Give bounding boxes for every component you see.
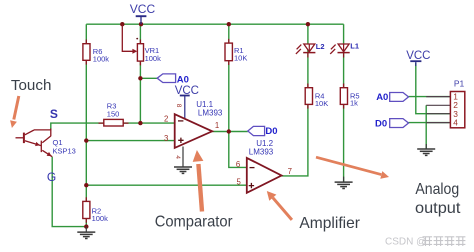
- connector P1: [426, 79, 465, 128]
- wire A0 to P1 pin 1: [409, 96, 451, 98]
- svg-text:P1: P1: [454, 79, 465, 89]
- svg-text:150: 150: [107, 109, 120, 118]
- svg-text:Comparator: Comparator: [155, 213, 233, 230]
- svg-text:S: S: [50, 107, 58, 121]
- LED L1: [330, 42, 359, 54]
- power VCC U1.1: [175, 85, 199, 119]
- junction R1 on VCC rail: [227, 22, 231, 26]
- wire divider to pin 5: [86, 184, 247, 186]
- wire VCC top rail: [86, 23, 343, 25]
- watermark CSDN: [385, 237, 465, 248]
- svg-text:L1: L1: [350, 42, 359, 51]
- LED L2: [296, 42, 325, 54]
- junction VR1 bottom with R3 output: [138, 121, 142, 125]
- wire R6 divider vertical: [85, 24, 87, 226]
- svg-text:LM393: LM393: [198, 108, 223, 117]
- svg-text:8: 8: [175, 104, 182, 108]
- resistor R6: [83, 40, 109, 65]
- annotation arrow amplifier: [267, 191, 292, 220]
- svg-text:G: G: [47, 170, 56, 184]
- power VCC P1: [406, 50, 430, 66]
- svg-text:VCC: VCC: [175, 85, 199, 97]
- ground U1.1: [174, 147, 192, 174]
- svg-text:LM393: LM393: [249, 147, 274, 156]
- ground P1: [417, 144, 435, 155]
- junction node A0 on VR1 branch: [138, 76, 142, 80]
- svg-text:10K: 10K: [234, 53, 247, 62]
- svg-text:VCC: VCC: [406, 50, 430, 62]
- svg-text:Analog: Analog: [415, 181, 459, 198]
- svg-text:2: 2: [164, 115, 168, 124]
- wire VCC to P1 pin 3: [416, 63, 451, 114]
- wire G emitter to ground: [52, 157, 86, 227]
- svg-text:1k: 1k: [350, 99, 358, 108]
- svg-text:Amplifier: Amplifier: [299, 215, 360, 232]
- resistor R5: [340, 84, 359, 109]
- wire node D0 stub: [229, 131, 248, 133]
- svg-text:D0: D0: [265, 126, 277, 137]
- svg-text:D0: D0: [375, 118, 387, 129]
- wire node S to pin 2: [51, 123, 175, 130]
- svg-text:A0: A0: [177, 74, 189, 85]
- resistor R4: [305, 84, 328, 109]
- svg-text:4: 4: [453, 118, 458, 128]
- resistor R2: [83, 197, 108, 223]
- junction VR1 wiper on VCC rail: [120, 22, 124, 26]
- wire VR1 branch: [139, 24, 141, 123]
- flag D0 right: [375, 118, 409, 129]
- svg-text:CSDN @: CSDN @: [385, 237, 426, 248]
- flag A0 right: [376, 92, 408, 103]
- junction node D0 / U1.1 output: [227, 129, 231, 133]
- wire L2 R4 branch: [307, 24, 309, 87]
- ground R5: [335, 177, 353, 189]
- svg-text:6: 6: [236, 160, 240, 169]
- svg-text:5: 5: [237, 178, 242, 187]
- junction divider to pin 5: [84, 183, 88, 187]
- svg-text:Touch: Touch: [11, 77, 52, 94]
- wire L1 R5 branch to ground: [343, 24, 345, 182]
- svg-text:100k: 100k: [92, 214, 109, 223]
- wire divider to pin 3: [86, 140, 174, 142]
- svg-text:10K: 10K: [315, 99, 328, 108]
- resistor R1: [225, 39, 247, 65]
- flag A0 left: [157, 74, 189, 85]
- svg-text:7: 7: [288, 167, 292, 176]
- wire P1 pin 2 to ground: [425, 105, 427, 148]
- annotation arrow touch: [10, 96, 19, 128]
- wire R1 branch and pin 6: [229, 24, 247, 167]
- flag D0 left: [248, 126, 278, 137]
- svg-text:1: 1: [215, 121, 219, 130]
- annotation arrow analog: [316, 157, 389, 179]
- annotation arrow comparator: [193, 150, 204, 212]
- wire U1.1 output: [212, 131, 229, 133]
- junction divider to pin 3: [84, 138, 88, 142]
- wire U1.2 output to R4: [282, 105, 308, 176]
- svg-text:output: output: [415, 200, 461, 217]
- wire D0 to P1 pin 4: [409, 122, 451, 124]
- svg-text:VCC: VCC: [130, 2, 156, 16]
- wire node A0 stub: [140, 77, 157, 79]
- svg-text:A0: A0: [376, 92, 388, 103]
- junction L2 on VCC rail: [306, 22, 310, 26]
- ground R2: [77, 227, 95, 239]
- svg-text:KSP13: KSP13: [53, 147, 76, 156]
- junction R2 bottom with emitter wire: [84, 224, 88, 228]
- op-amp U1.1 LM393: [175, 100, 223, 148]
- svg-text:L2: L2: [316, 42, 325, 51]
- svg-text:3: 3: [164, 134, 168, 143]
- svg-text:4: 4: [174, 155, 181, 159]
- svg-text:100k: 100k: [93, 54, 110, 63]
- svg-text:100k: 100k: [145, 54, 162, 63]
- transistor Q1 KSP13: [16, 129, 76, 157]
- potentiometer VR1: [122, 24, 161, 65]
- junction VCC symbol on rail: [139, 22, 143, 26]
- resistor R3: [99, 101, 129, 126]
- power VCC top: [130, 2, 156, 24]
- op-amp U1.2 LM393: [247, 139, 282, 193]
